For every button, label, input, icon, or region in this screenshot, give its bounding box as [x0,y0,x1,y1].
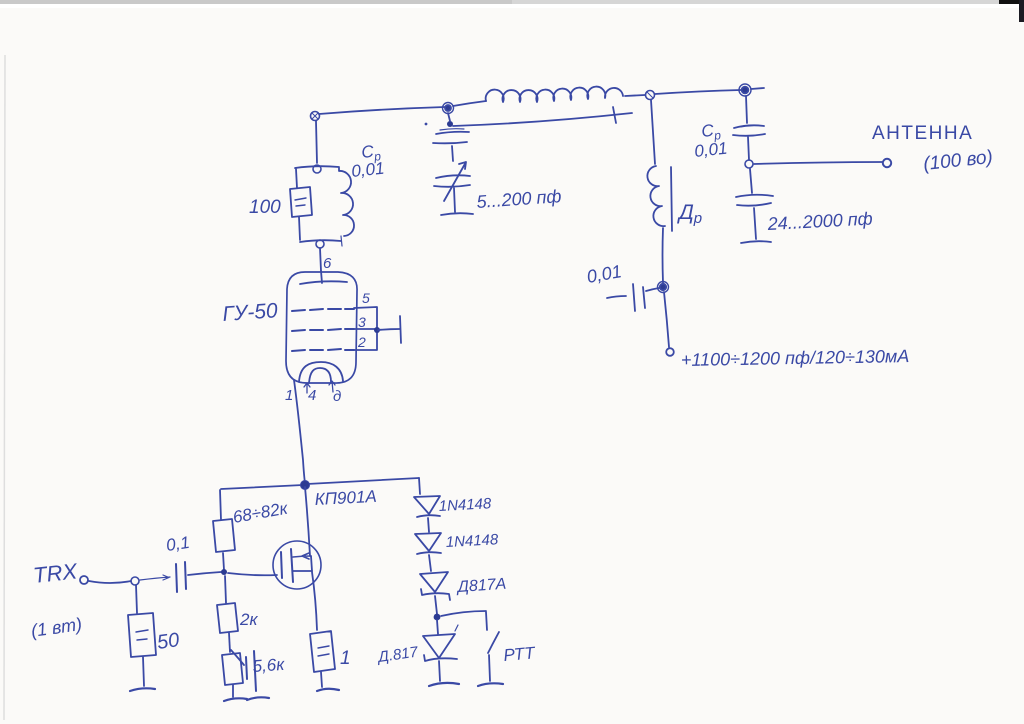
Q1 source line [293,570,312,572]
lead J2 down to Cp2 [746,96,747,123]
svg-text:1: 1 [340,648,351,669]
resistor R2k top lead [225,576,226,603]
resistor R5k6 body [222,653,243,685]
T1 bottom rail [300,240,341,242]
ground under R5k6 [224,698,247,701]
tube grid 1 (dashed) [292,309,354,311]
resistor R68 body [213,519,235,552]
HV terminal [666,348,674,356]
Z2 tick mark [455,625,458,631]
junction J2 [739,84,751,96]
mosfet Q1 circle [273,541,321,589]
node I [221,569,227,575]
capacitor Cp2 0,01 plates [734,125,764,128]
diode D1 1N4148 [414,496,440,514]
bottom terminal bar of C3 [741,241,771,243]
node D [745,160,753,168]
lead to bottom bar [454,188,455,212]
tube cathode dome inner [309,368,331,383]
choke Dr loops [647,166,665,226]
svg-text:5,6к: 5,6к [252,655,286,676]
tick right end [341,236,342,246]
lead node D to C3 [750,169,752,193]
bypass cap C6 plates [246,651,256,691]
node L to Z2 lead [437,620,438,634]
node B [646,91,655,100]
resistor R2k body [217,603,238,633]
svg-text:6: 6 [323,255,332,272]
ground under R1 [317,689,339,691]
junction E [658,282,669,293]
svg-text:+1100÷1200 пф/120÷130мА: +1100÷1200 пф/120÷130мА [681,346,910,370]
Z1 to node L lead [435,596,437,614]
diode D2 1N4148 [415,533,441,551]
bypass cap C6 lead [231,650,244,665]
rail turn down to diode chain [419,478,420,494]
inductor L1 (plate tank coil) [486,87,623,102]
svg-text:2: 2 [357,334,366,350]
svg-text:1N4148: 1N4148 [438,495,492,515]
wire C5 to node I [188,572,221,575]
wire node J to cap C5 [140,575,170,580]
variable capacitor C2 plates [436,175,470,178]
R2k bottom lead [229,633,230,652]
pin d stub [329,381,335,392]
svg-text:50: 50 [156,629,181,654]
capacitor C4 0,01 left lead [607,296,626,298]
wire node B to junction J2 [655,90,741,94]
resistor R50 body [128,613,156,657]
svg-text:АНТЕННА: АНТЕННА [872,123,973,144]
R50 = marks [136,630,148,640]
D2-Z1 lead [429,555,431,571]
Q1 drain lead up to node H [305,487,310,556]
D1-D2 lead [428,518,429,532]
svg-text:0,01: 0,01 [693,139,728,161]
tube cathode dome outer [299,362,343,382]
svg-text:4: 4 [308,387,316,404]
svg-text:д: д [333,388,341,405]
node L [434,614,441,621]
resistor R68 top lead [220,490,221,520]
Q1 channel bar [291,549,293,582]
svg-text:КП901А: КП901А [314,487,377,509]
wire node G down to tube anode pin 6 [320,248,321,271]
svg-text:ГУ-50: ГУ-50 [222,299,279,326]
zener Z2 D817 [423,634,455,658]
svg-text:100: 100 [249,197,281,218]
svg-text:3: 3 [358,314,366,330]
svg-text:2к: 2к [239,610,258,629]
choke core line [671,167,672,231]
svg-text:РТТ: РТТ [503,643,537,665]
wire node A down to transformer [316,121,317,163]
lower tap wire from J1 area [447,121,453,127]
bottom rail right [307,478,419,484]
Z2 bottom lead [439,661,440,681]
wire J1 to coil [453,101,486,106]
capacitor C4 plates [633,284,645,311]
Q1 drain line with arrow [293,553,311,559]
capacitor C5 0,1 plates [176,562,186,592]
tube anode lead [321,271,322,283]
tube grid 3 (dashed) [292,349,354,351]
wire J1 to lower dot [448,113,450,121]
grid junction [374,327,380,333]
R68 bottom lead [223,553,224,570]
wire node L to PTT [441,611,486,616]
ground under C6 [247,697,269,700]
transformer T1 top rail [295,166,339,168]
cathode wire down to node H [294,380,305,483]
ground under PTT [478,683,503,686]
svg-text:0,1: 0,1 [165,533,191,555]
wire coil to node B [625,95,645,96]
lead Cp1 to variable cap [452,146,453,161]
scan corner artifact [999,0,1024,4]
R1 = marks [318,646,329,656]
grid stub wire [378,329,400,330]
svg-text:TRX: TRX [32,558,80,588]
node F [313,165,321,173]
R50 top lead [136,585,137,613]
R100 = marks [295,198,306,206]
capacitor C3 24...2000 plates [736,195,773,197]
T1 left lead [296,169,297,188]
R1 bottom lead [321,672,322,687]
PTT switch blade [488,632,499,653]
antenna terminal [883,159,891,167]
svg-text:1: 1 [285,387,293,404]
lead E down to HV terminal [664,292,669,347]
svg-text:Д817А: Д817А [455,576,507,596]
svg-text:5: 5 [362,290,370,306]
node A (plate tank top-left) [311,112,320,121]
lead choke down to junction E [662,228,665,283]
zener Z1 D817A [420,572,448,592]
R50 bottom lead [143,657,144,686]
PTT lower lead [489,655,490,681]
node G [316,240,324,248]
svg-text:1N4148: 1N4148 [445,531,499,551]
wire node A to junction J1 [319,107,445,114]
resistor R100 body [290,187,312,217]
PTT upper contact lead [486,612,487,630]
grid tie bracket [354,307,377,328]
svg-text:0,01: 0,01 [350,159,385,181]
tube grid 2 (dashed) [292,329,354,331]
node J [131,577,139,585]
junction J1 [443,103,454,114]
resistor R1 body [310,631,335,672]
node H [301,481,310,490]
tube anode plate [300,281,347,284]
T1 coil right side [339,168,354,236]
stub right of J2 [751,88,764,89]
Q1 source lead down [312,572,317,630]
lead C3 down [754,208,756,239]
lead Cp2 to node D [748,137,749,160]
lead node B down to choke [651,100,655,164]
R100 bottom lead [299,217,300,240]
Q1 right bar [311,556,312,571]
tick on tap wire [613,107,616,123]
R5k6 bottom lead [232,685,234,697]
wire TRX to node J [89,581,131,583]
TRX terminal [80,576,88,584]
gate wire node I to mosfet [228,573,277,575]
grid stub bar [400,316,401,343]
variable cap arrow [444,162,466,201]
wire lower tap to right [453,113,632,126]
capacitor Cp1 0,01 plates [436,132,469,134]
bottom terminal bar [441,213,473,215]
ground under Z2 [429,683,459,686]
bottom rail left [221,485,303,489]
tube U1 envelope [286,272,357,383]
wire node D to antenna terminal [754,162,882,164]
pin 4 stub [304,383,310,393]
stray pen dot [425,123,428,126]
ground under R50 [130,688,155,691]
capacitor C4 right lead [646,288,659,291]
Q1 gate bar [281,552,282,578]
